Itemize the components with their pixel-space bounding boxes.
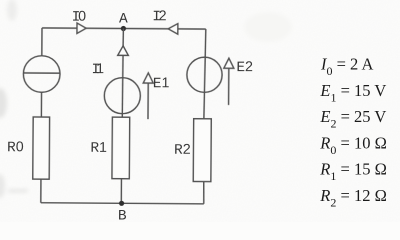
current source I0 bar <box>23 72 59 74</box>
svg-text:I2: I2 <box>152 8 167 25</box>
node A junction dot <box>121 26 126 31</box>
svg-text:E1: E1 <box>153 75 170 92</box>
arrow I0 <box>77 23 86 33</box>
svg-text:R1: R1 <box>90 140 107 157</box>
resistor R2 <box>193 119 211 182</box>
wire top horizontal A-line <box>42 28 206 29</box>
emf source E1 circle <box>104 78 140 114</box>
wire right bottom <box>203 182 205 204</box>
current source I0 circle <box>23 56 60 93</box>
wire left mid <box>40 92 42 117</box>
wire right vertical top <box>204 29 207 57</box>
wire left vertical top <box>41 28 43 56</box>
arrow E1 direction <box>147 83 149 119</box>
wire middle through source <box>121 55 124 117</box>
wire middle below A <box>122 28 124 46</box>
arrow I2 <box>168 24 178 35</box>
svg-text:A: A <box>119 11 128 27</box>
svg-text:I0: I0 <box>72 9 87 26</box>
svg-text:R0: R0 <box>7 139 24 156</box>
svg-text:E2: E2 <box>236 59 253 76</box>
wire left bottom <box>40 179 42 203</box>
svg-text:R2: R2 <box>174 142 191 159</box>
emf source E2 circle <box>187 57 222 92</box>
node B junction dot <box>119 201 124 206</box>
svg-text:B: B <box>118 209 127 222</box>
resistor R0 <box>33 117 50 179</box>
svg-text:I1: I1 <box>91 61 104 78</box>
resistor R1 <box>112 117 130 179</box>
wire bottom horizontal B-line <box>41 203 204 204</box>
wire right through source <box>204 57 205 119</box>
wire middle bottom <box>120 179 122 204</box>
arrow E2 direction <box>228 68 230 105</box>
arrow I1 on middle branch <box>118 46 129 56</box>
